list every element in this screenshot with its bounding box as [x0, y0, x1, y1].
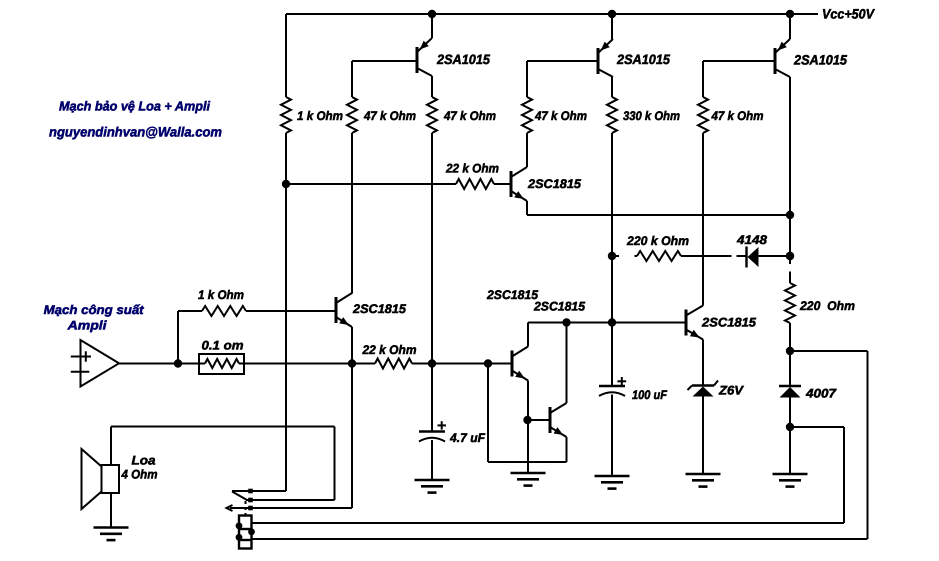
- svg-text:220 k Ohm: 220 k Ohm: [626, 234, 689, 248]
- svg-text:0.1 om: 0.1 om: [202, 339, 244, 353]
- svg-text:2SC1815: 2SC1815: [527, 177, 582, 191]
- svg-text:Loa: Loa: [132, 454, 156, 468]
- svg-text:4148: 4148: [736, 233, 767, 247]
- svg-text:1 k Ohm: 1 k Ohm: [198, 288, 244, 302]
- svg-text:Mạch bảo vệ Loa + Ampli: Mạch bảo vệ Loa + Ampli: [59, 99, 210, 114]
- svg-text:Vcc+50V: Vcc+50V: [822, 7, 875, 22]
- svg-text:220 Ohm: 220 Ohm: [799, 299, 855, 313]
- svg-text:4 Ohm: 4 Ohm: [121, 468, 158, 482]
- svg-text:2SC1815: 2SC1815: [352, 302, 407, 316]
- svg-text:2SC1815: 2SC1815: [533, 300, 586, 314]
- svg-text:47 k Ohm: 47 k Ohm: [363, 109, 416, 123]
- svg-text:47 k Ohm: 47 k Ohm: [534, 109, 587, 123]
- svg-text:Mạch công suất: Mạch công suất: [44, 303, 145, 317]
- svg-text:2SA1015: 2SA1015: [793, 53, 847, 68]
- svg-text:4007: 4007: [805, 387, 837, 401]
- svg-text:Z6V: Z6V: [718, 384, 745, 398]
- svg-text:2SA1015: 2SA1015: [436, 52, 490, 67]
- svg-text:22 k Ohm: 22 k Ohm: [445, 162, 499, 176]
- svg-text:2SA1015: 2SA1015: [616, 52, 670, 67]
- svg-text:nguyendinhvan@Walla.com: nguyendinhvan@Walla.com: [49, 125, 222, 140]
- svg-text:100 uF: 100 uF: [632, 388, 667, 402]
- svg-text:330 k Ohm: 330 k Ohm: [623, 109, 680, 123]
- svg-text:Ampli: Ampli: [66, 319, 107, 333]
- svg-text:47 k Ohm: 47 k Ohm: [443, 109, 496, 123]
- svg-text:47 k Ohm: 47 k Ohm: [711, 109, 764, 123]
- svg-text:2SC1815: 2SC1815: [701, 316, 757, 330]
- svg-text:1 k Ohm: 1 k Ohm: [297, 109, 343, 123]
- svg-text:4.7 uF: 4.7 uF: [449, 431, 485, 445]
- svg-text:2SC1815: 2SC1815: [486, 288, 539, 302]
- svg-text:22 k Ohm: 22 k Ohm: [362, 343, 417, 357]
